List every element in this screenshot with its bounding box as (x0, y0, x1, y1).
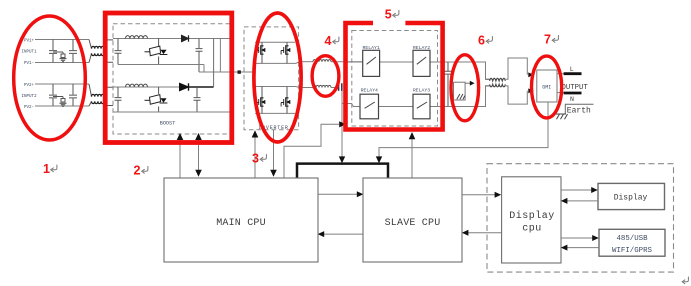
varistor input2 to ground (53, 97, 63, 99)
highlight rect 2 (105, 13, 232, 143)
highlight ellipse 1 (14, 16, 86, 140)
varistor input1 to ground (53, 52, 63, 54)
svg-text:RELAY4: RELAY4 (361, 87, 378, 93)
svg-text:PV2-: PV2- (24, 106, 34, 110)
arrow down into main inv (270, 170, 277, 177)
highlight ellipse 4 (312, 56, 339, 97)
Display cpu box (502, 177, 561, 263)
transistor U-TR (281, 46, 290, 55)
wire main-slave fwd (318, 193, 358, 195)
capacitor input2 B (69, 84, 77, 106)
arrow down into main B (195, 170, 202, 177)
wire choke to GMI lower (505, 86, 527, 104)
display wires (561, 190, 599, 248)
wire 485-dcpu back (567, 247, 599, 249)
inductor L2 (126, 84, 148, 87)
ground earth hatch (553, 114, 568, 119)
svg-text:6: 6 (478, 34, 485, 48)
junction tick boost-inverter (238, 70, 241, 73)
svg-text:3: 3 (252, 152, 259, 166)
capacitor input2 A (49, 84, 57, 106)
comm box 485/USB (599, 229, 665, 256)
wire Q2 leg (158, 87, 160, 112)
labels input (22, 40, 38, 111)
wire slave-relay drive (411, 139, 413, 178)
node PV2+ wire (35, 83, 89, 85)
wire slave-display fwd (462, 194, 495, 196)
relay RELAY2 (413, 50, 430, 76)
display dashed box (487, 164, 674, 272)
transistor Q2 (145, 95, 168, 105)
wire inverter top rail (255, 41, 295, 43)
arrow main to slave (357, 191, 364, 197)
diode D1 (182, 35, 189, 41)
inverter dashed box (244, 27, 299, 130)
transistor U-BR (281, 98, 290, 107)
arrow up into boost A (177, 133, 184, 140)
arrow slave to main (318, 231, 325, 237)
arrow into GMI upper (528, 72, 533, 77)
svg-text:BOOST: BOOST (160, 120, 176, 126)
arrow up into relay from slave (409, 132, 416, 139)
ground input1 (60, 59, 67, 62)
wire inverter mid rails (256, 63, 296, 86)
wire X-cap branch into relay box (342, 104, 360, 107)
wire display-slave back (468, 232, 502, 234)
wire boost bottom rail (113, 111, 231, 113)
svg-text:PV1-: PV1- (24, 62, 34, 66)
arrow 485 to dcpu (561, 245, 568, 251)
inductor CM choke (490, 78, 506, 80)
wire main-inverter ctl B (273, 130, 275, 171)
ground input2 (60, 103, 67, 106)
wire choke to GMI upper (505, 58, 527, 79)
EMI ground box (454, 82, 466, 100)
svg-text:RELAY1: RELAY1 (363, 45, 380, 51)
relay RELAY4 (360, 94, 379, 119)
svg-text:INPUT2: INPUT2 (22, 95, 38, 99)
transistor U-TL (256, 46, 265, 55)
node PV2- wire (35, 105, 89, 107)
wire inverter bottom rail (255, 112, 295, 114)
SLAVE CPU box (363, 178, 462, 262)
node PV1- wire (35, 62, 89, 64)
svg-text:485/USB: 485/USB (616, 235, 648, 243)
transistor Q1 (145, 46, 168, 56)
wire slave-main back (324, 233, 364, 235)
wire boost top-to-mid link (219, 39, 221, 73)
svg-text:2: 2 (134, 164, 141, 178)
arrow display to dcpu (561, 198, 568, 204)
svg-text:N: N (570, 96, 574, 103)
wire main-boost ctl B (198, 134, 200, 173)
arrow up into inverter A (252, 130, 259, 137)
svg-text:L: L (570, 66, 574, 73)
arrow up into boost B (195, 133, 202, 140)
wire inverter phase outputs (296, 62, 299, 88)
arrow right into relay box (339, 121, 346, 127)
svg-text:MAIN CPU: MAIN CPU (216, 218, 266, 229)
inductor filter upper (313, 60, 331, 62)
svg-text:Display: Display (614, 194, 648, 203)
svg-text:7: 7 (544, 33, 551, 47)
transistor U-BL (256, 98, 265, 107)
wire relay bottom row (379, 106, 449, 108)
capacitor input1 B (69, 40, 77, 63)
node PV1+ wire (35, 39, 89, 41)
wire main-inverter ctl A (254, 134, 256, 178)
wire GMI to N (557, 92, 564, 94)
arrow dcpu to 485 (592, 235, 599, 241)
highlight ellipse 6 (451, 55, 479, 121)
svg-text:Display: Display (509, 210, 555, 222)
capacitor input1 A (49, 40, 57, 63)
ground EMI hatch (457, 94, 465, 99)
MAIN CPU box (164, 178, 318, 262)
wire boost ch1 top rail (113, 38, 231, 40)
choke input1 (89, 40, 92, 63)
boost dashed box (113, 24, 231, 134)
GMI box (537, 70, 557, 102)
svg-text:PV1+: PV1+ (24, 40, 35, 44)
wire inverter legs (262, 42, 287, 113)
red numbers (43, 8, 551, 178)
wire boost ch1 bottom rail (118, 65, 204, 73)
svg-text:RELAY2: RELAY2 (413, 45, 430, 51)
capacitor X-cap (339, 83, 342, 91)
svg-text:PV2+: PV2+ (24, 84, 35, 88)
terminal N bar (564, 92, 582, 95)
wire Q1 leg (158, 39, 160, 65)
capacitor boost in2 (115, 87, 122, 112)
arrow dcpu to display (591, 187, 598, 193)
highlight ellipse 3 (254, 13, 301, 142)
wire dcpu-display fwd (561, 189, 592, 191)
svg-text:SLAVE CPU: SLAVE CPU (385, 218, 441, 229)
svg-text:1: 1 (43, 162, 50, 176)
relay RELAY3 (413, 94, 430, 119)
earth bracket (565, 104, 593, 113)
inductor filter lower (313, 85, 331, 87)
wire upper AC line (299, 61, 313, 63)
svg-text:Earth: Earth (567, 106, 591, 115)
arrow down sense X-cap (339, 156, 345, 163)
wire boost ch2 top rail (113, 86, 181, 88)
svg-text:cpu: cpu (522, 224, 542, 235)
Display box (598, 183, 665, 209)
capacitor boost out2 (194, 87, 201, 112)
arrow down sense GMI (376, 156, 382, 163)
wire GMI sense (379, 102, 548, 157)
wire main-boost ctl A (179, 134, 181, 178)
arrow into GMI lower (528, 88, 533, 93)
wire relay top row (346, 61, 448, 63)
wire dcpu-485 fwd (561, 237, 593, 239)
relay RELAY1 (363, 50, 380, 76)
capacitor AC out (445, 62, 452, 107)
wire GMI to L (557, 73, 564, 75)
choke input2 (89, 84, 92, 106)
diode D2 bold (180, 83, 189, 90)
wire D2 output bold (189, 86, 214, 88)
relay dashed box (352, 31, 438, 127)
wire to CM choke upper (448, 62, 490, 79)
wire display-dcpu back (567, 200, 598, 202)
svg-text:GMI: GMI (542, 84, 551, 90)
svg-text:RELAY3: RELAY3 (413, 87, 430, 93)
thick bus MAIN-SLAVE (297, 164, 388, 178)
terminal L bar (564, 72, 582, 75)
arrowheads (177, 121, 502, 237)
arrow displaycpu to slave (462, 230, 469, 236)
wire lower AC line (299, 87, 313, 89)
svg-text:OUTPUT: OUTPUT (562, 84, 589, 92)
svg-text:INPUT1: INPUT1 (22, 51, 38, 55)
wire relay drive from MAIN (284, 124, 339, 178)
svg-text:4: 4 (325, 34, 332, 48)
capacitor boost out1 (196, 39, 203, 73)
svg-text:WIFI/GPRS: WIFI/GPRS (612, 247, 652, 255)
inductor L1 (126, 36, 148, 39)
wire X-cap sense (341, 91, 343, 157)
arrow slave to displaycpu (495, 192, 502, 198)
svg-text:5: 5 (385, 8, 392, 22)
wire to CM choke lower (448, 86, 490, 107)
highlight rect 5 with gap (346, 23, 443, 130)
highlight ellipse 7 (532, 56, 562, 118)
wire boost mid bus (199, 71, 256, 73)
capacitor boost in1 (115, 39, 122, 65)
